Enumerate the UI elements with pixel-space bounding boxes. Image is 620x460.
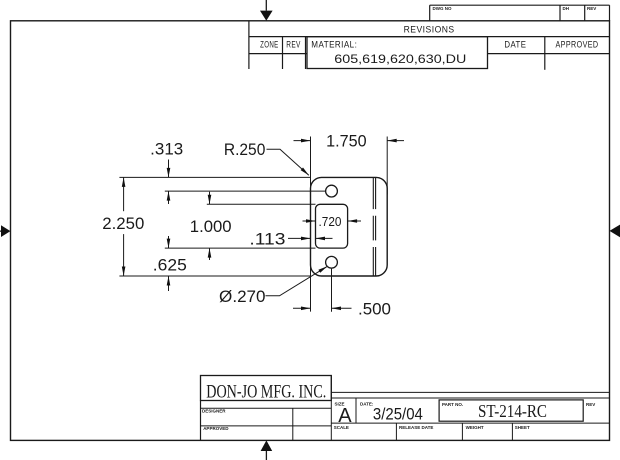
svg-text:WEIGHT: WEIGHT <box>466 425 484 430</box>
center mark right <box>610 225 620 238</box>
dimension 1.750 <box>294 132 405 311</box>
center mark bottom <box>261 440 273 460</box>
svg-text:DWG NO: DWG NO <box>433 6 452 11</box>
title block right section <box>331 392 609 427</box>
hole top <box>326 185 338 197</box>
hole bottom <box>326 256 338 268</box>
title block bottom row <box>334 423 530 440</box>
svg-text:APPROVED: APPROVED <box>203 426 229 431</box>
svg-text:DATE: DATE <box>504 40 526 50</box>
svg-text:.720: .720 <box>319 215 342 229</box>
dimension .313 <box>150 140 326 204</box>
svg-text:.113: .113 <box>249 231 285 249</box>
center mark top <box>260 0 273 21</box>
dimension 2.250 <box>102 177 311 276</box>
svg-text:2.250: 2.250 <box>102 215 144 233</box>
dimension 1.000 <box>165 192 316 260</box>
title block left section <box>201 376 332 441</box>
svg-text:DH: DH <box>563 6 570 11</box>
diameter leader O.270 <box>219 266 327 306</box>
dwg no strip <box>430 5 610 21</box>
svg-text:DESIGNER: DESIGNER <box>202 409 226 414</box>
svg-text:SHEET: SHEET <box>515 425 530 430</box>
svg-text:.313: .313 <box>150 140 183 158</box>
material box <box>307 37 488 69</box>
radius leader R.250 <box>224 141 309 175</box>
svg-text:APPROVED: APPROVED <box>556 40 599 50</box>
svg-text:ZONE: ZONE <box>260 40 279 50</box>
svg-text:R.250: R.250 <box>224 141 266 159</box>
svg-text:ST-214-RC: ST-214-RC <box>478 401 547 421</box>
svg-text:RELEASE DATE: RELEASE DATE <box>399 425 433 430</box>
fold line left <box>372 178 374 276</box>
svg-text:.500: .500 <box>358 301 391 319</box>
dimension .500 <box>293 269 391 319</box>
fold line right <box>375 178 377 276</box>
center mark left <box>0 225 10 237</box>
part number box ST-214-RC <box>439 400 595 421</box>
title block logo box DON-JO <box>201 376 332 403</box>
dimension .720 <box>303 215 362 229</box>
svg-text:DATE:: DATE: <box>360 401 374 406</box>
part outline <box>311 177 388 276</box>
revisions table <box>249 21 610 70</box>
svg-text:1.000: 1.000 <box>190 218 232 236</box>
svg-text:REV: REV <box>587 6 596 11</box>
svg-text:PART NO.: PART NO. <box>442 402 463 407</box>
svg-text:.625: .625 <box>153 257 187 275</box>
svg-text:SCALE: SCALE <box>334 425 349 430</box>
svg-text:REV: REV <box>586 402 595 407</box>
dimension .625 <box>153 236 187 291</box>
svg-text:605,619,620,630,DU: 605,619,620,630,DU <box>334 54 466 66</box>
svg-text:DON-JO MFG. INC.: DON-JO MFG. INC. <box>206 383 326 403</box>
svg-text:REV: REV <box>286 40 301 50</box>
svg-text:A: A <box>338 405 352 427</box>
svg-text:1.750: 1.750 <box>326 132 367 150</box>
svg-text:Ø.270: Ø.270 <box>219 288 266 306</box>
svg-text:REVISIONS: REVISIONS <box>404 24 455 34</box>
dimension .113 <box>249 231 332 249</box>
svg-text:3/25/04: 3/25/04 <box>373 406 423 424</box>
rectangular cutout <box>316 204 348 248</box>
svg-text:MATERIAL:: MATERIAL: <box>311 40 357 50</box>
